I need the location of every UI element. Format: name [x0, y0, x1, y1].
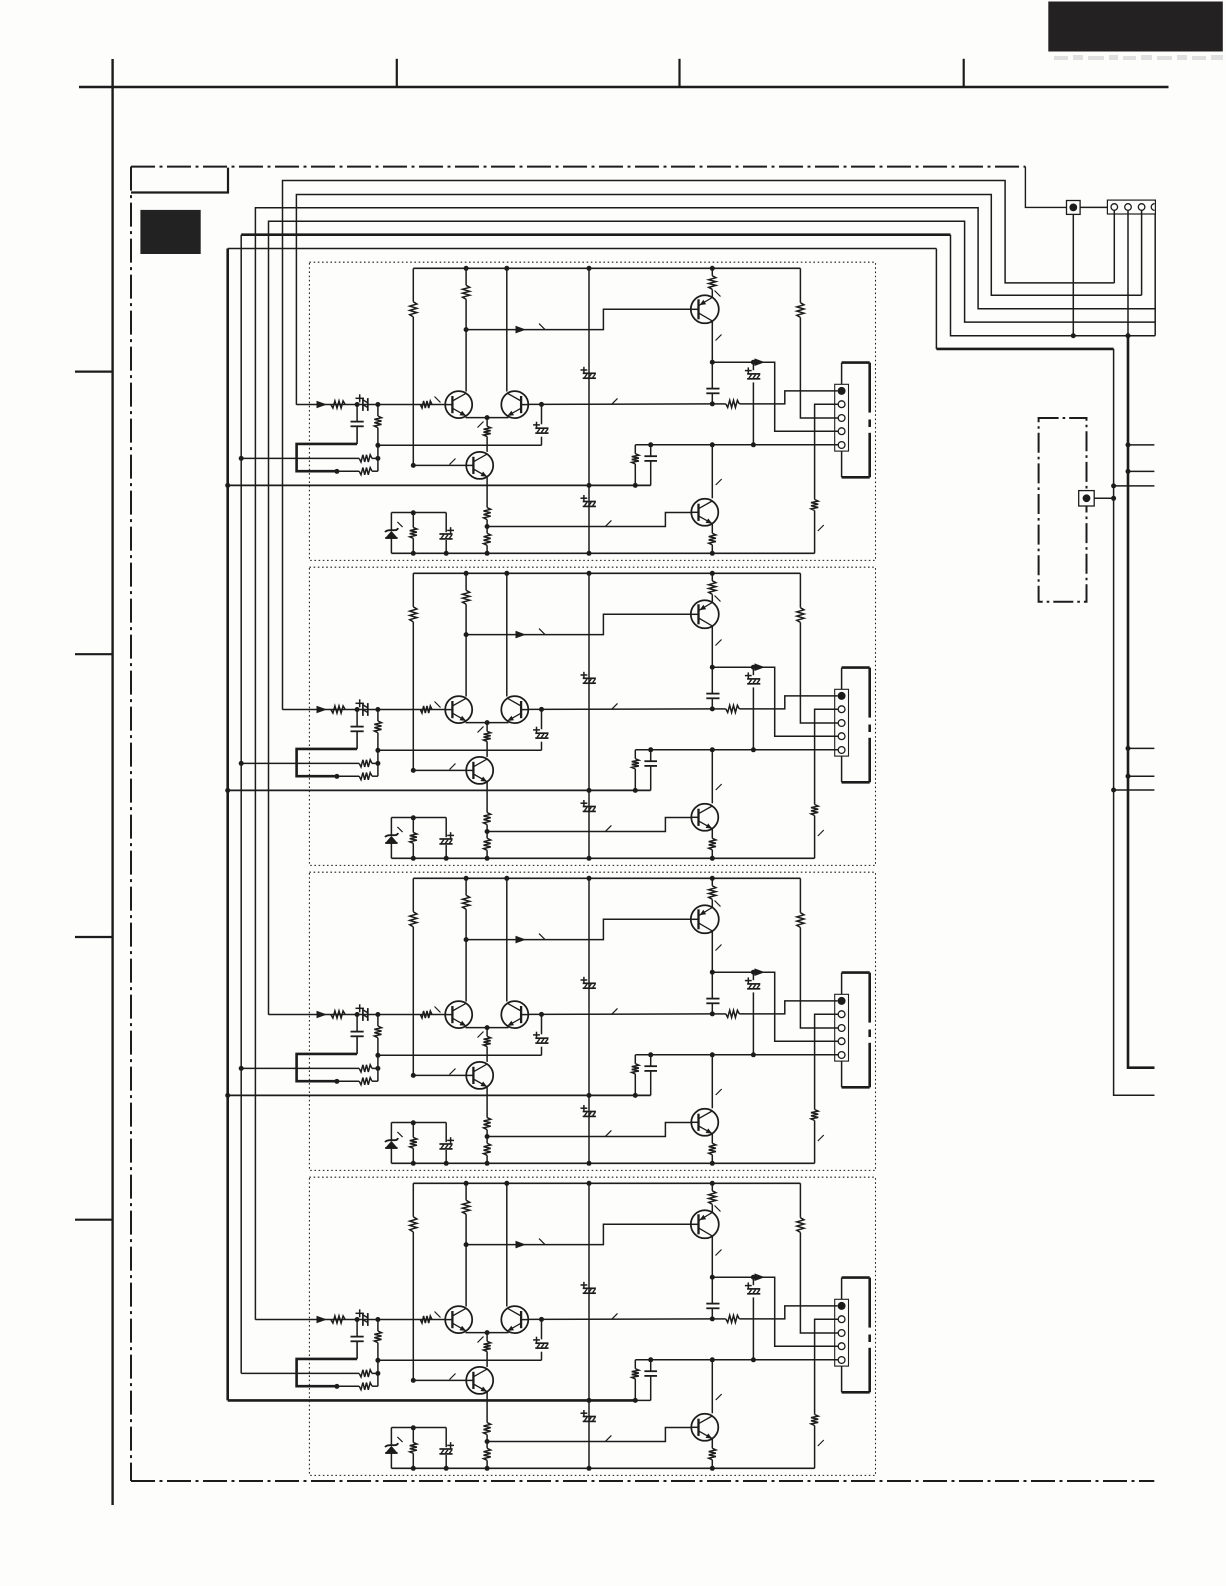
- wire output drive (to CN pin4): [712, 1277, 838, 1346]
- junction L5/CN1 pin2 drop: [1126, 333, 1131, 338]
- junction emitters: [485, 1330, 490, 1335]
- resistor R26 (row B): [337, 775, 359, 777]
- resistor R36 (row B): [337, 1080, 359, 1082]
- junction rail/Q22 collector: [504, 571, 509, 576]
- stub wire y748.4: [1128, 747, 1154, 749]
- board outline dash-dot bottom edge: [131, 1480, 1154, 1482]
- junction drive/C37: [751, 970, 756, 975]
- junction Q34 collector node: [710, 970, 715, 975]
- junction sense/C18: [648, 442, 653, 447]
- resistor R415 (Q43 emitter lower): [484, 1448, 491, 1460]
- junction input/C31: [355, 1012, 360, 1017]
- resistor R38: [799, 878, 801, 912]
- fold tick left 3: [75, 936, 113, 938]
- junction rail/Q12 collector: [504, 266, 509, 271]
- junction Q45 emitter/bottom rail: [710, 1466, 715, 1471]
- channel 4 outline (dotted): [309, 1177, 875, 1475]
- junction L6/block2: [225, 788, 230, 793]
- CN5 pin 3: [838, 1330, 845, 1337]
- junction C29/bottom rail: [444, 856, 449, 861]
- resistor R15 (row A): [241, 457, 359, 459]
- transistor Q22: [501, 696, 528, 723]
- drive wire to Q44 base: [466, 1224, 691, 1244]
- junction fbgnd/R410: [633, 1398, 638, 1403]
- junction mid rail/feedback ground line: [587, 788, 592, 793]
- junction jog/R16: [334, 469, 339, 474]
- transistor Q24: [691, 600, 719, 628]
- CN5 pin 5: [838, 1357, 845, 1364]
- CN3 pin 4: [838, 733, 845, 740]
- junction mid rail/bottom rail: [587, 1466, 592, 1471]
- wire Q33 base: [413, 1074, 466, 1076]
- resistor R47: [711, 1183, 713, 1191]
- junction mid rail/feedback ground line: [587, 1093, 592, 1098]
- input wire ch3: [269, 1014, 446, 1016]
- wire mid rail ch3: [588, 878, 590, 1163]
- junction R14/row A: [375, 456, 380, 461]
- wire Q22 collector: [506, 573, 508, 696]
- junction emitters: [485, 720, 490, 725]
- stub wire y790: [1114, 789, 1155, 791]
- capacitor C16: [711, 362, 713, 388]
- wire C23 to R25 node: [378, 749, 542, 751]
- CN3 pin 5: [838, 747, 845, 754]
- resistor R12: [465, 268, 467, 285]
- junction L6/block3: [225, 1093, 230, 1098]
- resistor R32: [465, 878, 467, 895]
- CN5 pin 2: [838, 1316, 845, 1323]
- resistor R316 (protection): [412, 1123, 414, 1138]
- junction fbgnd/R310: [633, 1093, 638, 1098]
- resistor R112 (Q15 emitter): [711, 524, 713, 534]
- capacitor C12 (input, polarized): [362, 398, 364, 411]
- connector CN5: [835, 1299, 849, 1366]
- junction Q33 base/R31: [411, 1073, 416, 1078]
- junction protection/R41: [411, 1425, 416, 1430]
- junction rail/R22: [464, 571, 469, 576]
- bus wire L3 (block4 input): [255, 208, 1155, 1320]
- wire feedback ground line ch1: [228, 484, 651, 486]
- junction L5/pad P1 drop: [1071, 333, 1076, 338]
- CN2 pin 2: [838, 401, 845, 408]
- bus wire L1 (block2 input): [283, 181, 1115, 710]
- wire Q23 base: [413, 769, 466, 771]
- resistor R17: [711, 268, 713, 276]
- junction mid rail/bottom rail: [587, 856, 592, 861]
- wire Q15 base step: [487, 513, 691, 527]
- capacitor C49 (protection): [445, 1428, 447, 1448]
- resistor R412 (Q45 emitter): [711, 1439, 713, 1449]
- resistor R11: [412, 268, 414, 302]
- junction rail/mid rail: [587, 571, 592, 576]
- transistor Q31: [445, 1001, 472, 1028]
- wire Q25 collector: [711, 750, 713, 804]
- junction rail/mid rail: [587, 266, 592, 271]
- wire dash-dot corner to pad P1: [1025, 167, 1066, 208]
- stub wire y471.4: [1128, 470, 1154, 472]
- CN2 pin 3: [838, 415, 845, 422]
- junction protection/R11: [411, 510, 416, 515]
- resistor R22a (input series): [331, 706, 345, 713]
- wire sense line (to CN pin5): [635, 1054, 838, 1056]
- junction C39/bottom rail: [444, 1161, 449, 1166]
- resistor R14: [377, 405, 379, 417]
- wire bottom rail ch4: [391, 1467, 814, 1469]
- resistor R414 (Q43 emitter upper): [486, 1392, 488, 1423]
- transistor Q14: [691, 295, 719, 323]
- shield bracket ch4: [841, 1278, 843, 1300]
- resistor R113 (to Q13 collector): [486, 418, 488, 427]
- transistor Q13: [466, 452, 493, 479]
- resistor R43 (input): [420, 1316, 432, 1323]
- resistor R211 (to CN pin2): [815, 709, 839, 804]
- junction Q23 emitter/base step: [485, 829, 490, 834]
- junction R42/drive line: [464, 1242, 469, 1247]
- capacitor C23 (at Q22 base): [541, 709, 543, 729]
- capacitor C27: [752, 667, 754, 675]
- resistor R34: [377, 1015, 379, 1027]
- junction R14/feedback: [375, 443, 380, 448]
- junction input/R14: [375, 402, 380, 407]
- resistor R18: [799, 268, 801, 302]
- bus wire L4 (block3 input): [269, 221, 1156, 1015]
- junction rail/R12: [464, 266, 469, 271]
- capacitor C25 (on mid rail): [583, 806, 596, 808]
- junction R24/row A: [375, 761, 380, 766]
- transistor Q21: [445, 696, 472, 723]
- junction R316/bottom rail: [411, 1161, 416, 1166]
- transistor Q15: [691, 499, 718, 526]
- protection network top wire ch1: [391, 512, 446, 514]
- transistor Q45: [691, 1414, 718, 1441]
- junction R34/row A: [375, 1066, 380, 1071]
- resistor R110: [634, 445, 636, 454]
- capacitor C17: [752, 362, 754, 370]
- transistor Q12: [501, 391, 528, 418]
- junction Q42 base node: [539, 1317, 544, 1322]
- fold tick top 1: [396, 59, 398, 87]
- capacitor C26: [711, 667, 713, 693]
- resistor R413 (to Q43 collector): [486, 1333, 488, 1342]
- wire emitters link: [466, 417, 509, 419]
- junction Q35 emitter/bottom rail: [710, 1161, 715, 1166]
- junction fbgnd/R110: [633, 483, 638, 488]
- junction rail/R27: [710, 571, 715, 576]
- wire mid rail ch2: [588, 573, 590, 858]
- resistor R41: [412, 1183, 414, 1217]
- wire sense line (to CN pin5): [635, 444, 838, 446]
- resistor R416 (protection): [412, 1428, 414, 1443]
- junction input/R44: [375, 1317, 380, 1322]
- fold tick left 1: [75, 371, 113, 373]
- junction rail/R37: [710, 876, 715, 881]
- CN3 pin 1: [838, 692, 846, 700]
- resistor R24: [377, 710, 379, 722]
- zener diode D11: [390, 513, 392, 530]
- drive wire to Q34 base: [466, 919, 691, 939]
- junction input/C21: [355, 707, 360, 712]
- junction R22/drive line: [464, 632, 469, 637]
- wire mid rail ch1: [588, 268, 590, 553]
- transistor Q23: [466, 757, 493, 784]
- junction rail/R47: [710, 1181, 715, 1186]
- board outline notch box: [131, 168, 228, 193]
- junction mid rail/bottom rail: [587, 1161, 592, 1166]
- junction output/feedback: [710, 401, 715, 406]
- CN4 pin 2: [838, 1011, 845, 1018]
- resistor R25 (row A): [241, 762, 359, 764]
- wire emitters link: [466, 722, 509, 724]
- resistor R114 (Q13 emitter upper): [486, 477, 488, 508]
- capacitor C48: [650, 1360, 652, 1371]
- wire Q14 collector: [711, 321, 713, 362]
- wire Q24 collector: [711, 626, 713, 667]
- capacitor C11: [356, 405, 358, 422]
- wire mid rail ch4: [588, 1183, 590, 1468]
- capacitor C21: [356, 710, 358, 727]
- CN5 pin 1: [838, 1302, 846, 1310]
- drive wire to Q24 base: [466, 614, 691, 634]
- protection network top wire ch2: [391, 817, 446, 819]
- wire Q42 collector: [506, 1183, 508, 1306]
- redacted sheet label (black): [140, 210, 200, 254]
- wire bottom rail ch3: [391, 1162, 814, 1164]
- zener diode D31: [390, 1123, 392, 1140]
- ground return jog (thick) ch4: [297, 1359, 358, 1386]
- wire C43 to R45 node: [378, 1359, 542, 1361]
- wire Q34 collector: [711, 931, 713, 972]
- transistor Q11: [445, 391, 472, 418]
- page border left rule: [111, 59, 113, 1505]
- channel 1 outline (dotted): [309, 262, 875, 560]
- wire bottom rail ch1: [391, 552, 814, 554]
- junction emitters: [485, 1025, 490, 1030]
- junction input/R34: [375, 1012, 380, 1017]
- bus wire L2 (block1 input): [296, 195, 1141, 405]
- resistor R310: [634, 1055, 636, 1064]
- CN2 pin 1: [838, 387, 846, 395]
- capacitor C45 (on mid rail): [583, 1416, 596, 1418]
- transistor Q34: [691, 905, 719, 933]
- junction R32/drive line: [464, 937, 469, 942]
- CN4 pin 4: [838, 1038, 845, 1045]
- resistor R210: [634, 750, 636, 759]
- capacitor C44 (on mid rail): [583, 1287, 596, 1289]
- capacitor C46: [711, 1277, 713, 1303]
- resistor R215 (Q23 emitter lower): [484, 838, 491, 850]
- junction rail/Q32 collector: [504, 876, 509, 881]
- wire feedback ground line ch4: [228, 1399, 636, 1402]
- wire sense line (to CN pin5): [635, 1359, 838, 1361]
- wire feedback ground line ch2: [228, 789, 651, 791]
- resistor R39 (output): [712, 1013, 726, 1015]
- junction sense/Q15 collector: [710, 442, 715, 447]
- junction Q15 emitter/bottom rail: [710, 551, 715, 556]
- capacitor C41: [356, 1320, 358, 1337]
- junction input/R24: [375, 707, 380, 712]
- shield bracket ch2: [841, 668, 843, 690]
- resistor R12a (input series): [331, 401, 345, 408]
- junction mid rail/feedback ground line: [587, 1398, 592, 1403]
- wire pad P2 to right rail A: [1094, 497, 1113, 499]
- wire feedback to Q12 base: [528, 403, 712, 406]
- junction L5/block3: [239, 1066, 244, 1071]
- test pad P2: [1079, 491, 1095, 506]
- junction sense/C17: [751, 442, 756, 447]
- resistor R29 (output): [712, 708, 726, 710]
- wire Q13 base: [413, 464, 466, 466]
- capacitor C39 (protection): [445, 1123, 447, 1143]
- CN4 pin 1: [838, 997, 846, 1005]
- junction mid rail/feedback ground line: [587, 483, 592, 488]
- resistor R48: [799, 1183, 801, 1217]
- stub wire y444.9: [1128, 444, 1154, 446]
- fold tick top 2: [678, 59, 680, 87]
- resistor R45 (row A): [241, 1372, 359, 1374]
- resistor R213 (to Q23 collector): [486, 723, 488, 732]
- transistor Q35: [691, 1109, 718, 1136]
- junction Q22 base node: [539, 707, 544, 712]
- junction Q33 emitter/base step: [485, 1134, 490, 1139]
- junction output/feedback: [710, 706, 715, 711]
- resistor R31: [412, 878, 414, 912]
- board outline dash-dot top edge: [131, 166, 1025, 168]
- wire Q35 base step: [487, 1123, 691, 1137]
- junction rail/R42: [464, 1181, 469, 1186]
- right rail wire B thick (x1128): [1128, 336, 1155, 1068]
- capacitor C24 (on mid rail): [583, 677, 596, 679]
- fold tick top 3: [963, 59, 965, 87]
- capacitor C15 (on mid rail): [583, 501, 596, 503]
- zener diode D41: [390, 1428, 392, 1445]
- junction sense/Q45 collector: [710, 1357, 715, 1362]
- input wire ch4: [255, 1319, 445, 1321]
- junction Q25 emitter/bottom rail: [710, 856, 715, 861]
- resistor R16 (row B): [337, 470, 359, 472]
- right rail wire A (x1113.6): [1114, 349, 1155, 1095]
- channel 3 outline (dotted): [309, 872, 875, 1170]
- wire Q45 base step: [487, 1428, 691, 1442]
- capacitor C43 (at Q42 base): [541, 1319, 543, 1339]
- junction Q13 base/R11: [411, 463, 416, 468]
- resistor R28: [799, 573, 801, 607]
- wire Q44 collector: [711, 1236, 713, 1277]
- wire feedback to Q42 base: [528, 1318, 712, 1321]
- protection network top wire ch4: [391, 1427, 446, 1429]
- junction sense/C37: [751, 1052, 756, 1057]
- capacitor C42 (input, polarized): [362, 1313, 364, 1326]
- capacitor C38: [650, 1055, 652, 1066]
- junction drive/C27: [751, 665, 756, 670]
- wire output drive (to CN pin4): [712, 362, 838, 431]
- wire Q45 collector: [711, 1360, 713, 1414]
- wire pad P1 to connector CN1: [1080, 206, 1107, 208]
- resistor R212 (Q25 emitter): [711, 829, 713, 839]
- junction R416/bottom rail: [411, 1466, 416, 1471]
- junction sense/C27: [751, 747, 756, 752]
- junction R44/feedback: [375, 1358, 380, 1363]
- wire top rail ch2: [413, 572, 800, 574]
- resistor R313 (to Q33 collector): [486, 1028, 488, 1037]
- stub wire y485.9: [1114, 485, 1155, 487]
- wire emitters link: [466, 1027, 509, 1029]
- junction R44/row A: [375, 1371, 380, 1376]
- module outline dash-dot box (right): [1039, 418, 1087, 602]
- connector CN1: [1107, 200, 1155, 214]
- wire bottom rail ch2: [391, 857, 814, 859]
- resistor R315 (Q33 emitter lower): [484, 1143, 491, 1155]
- wire sense line (to CN pin5): [635, 749, 838, 751]
- transistor Q42: [501, 1306, 528, 1333]
- junction output/feedback: [710, 1011, 715, 1016]
- connector CN4: [835, 994, 849, 1061]
- connector CN2: [835, 384, 849, 451]
- junction emitters: [485, 415, 490, 420]
- junction R12/drive line: [464, 327, 469, 332]
- resistor R22: [465, 573, 467, 590]
- junction L5/block1: [239, 456, 244, 461]
- page border top rule: [79, 86, 1169, 88]
- capacitor C14 (on mid rail): [583, 372, 596, 374]
- transistor Q32: [501, 1001, 528, 1028]
- junction sense/C38: [648, 1052, 653, 1057]
- CN2 pin 5: [838, 442, 845, 449]
- transistor Q25: [691, 804, 718, 831]
- bus wire L6 (ground rail, thick): [226, 249, 229, 1401]
- stub wire y776.2: [1128, 775, 1154, 777]
- junction input/C11: [355, 402, 360, 407]
- resistor R410: [634, 1360, 636, 1369]
- junction input/C41: [355, 1317, 360, 1322]
- junction jog/R46: [334, 1384, 339, 1389]
- wire Q43 base: [413, 1379, 466, 1381]
- resistor R214 (Q23 emitter upper): [486, 782, 488, 813]
- wire C33 to R35 node: [378, 1054, 542, 1056]
- junction R34/feedback: [375, 1053, 380, 1058]
- bus wire L5 (bias rail): [240, 235, 242, 1374]
- junction drive/C17: [751, 360, 756, 365]
- transistor Q41: [445, 1306, 472, 1333]
- capacitor C32 (input, polarized): [362, 1008, 364, 1021]
- junction R216/bottom rail: [411, 856, 416, 861]
- junction rail/mid rail: [587, 876, 592, 881]
- resistor R115 (Q13 emitter lower): [484, 533, 491, 545]
- resistor R312 (Q35 emitter): [711, 1134, 713, 1144]
- resistor R23 (input): [420, 706, 432, 713]
- junction fbgnd/R210: [633, 788, 638, 793]
- resistor R49 (output): [712, 1318, 726, 1320]
- junction Q43 emitter/base step: [485, 1439, 490, 1444]
- wire Q12 collector: [506, 268, 508, 391]
- transistor Q33: [466, 1062, 493, 1089]
- wire CN1 pin2 drop: [1127, 210, 1129, 335]
- wire C13 to R15 node: [378, 444, 542, 446]
- CN3 pin 2: [838, 706, 845, 713]
- junction L6/block1: [225, 483, 230, 488]
- junction R215/bottom rail: [485, 856, 490, 861]
- junction mid rail/bottom rail: [587, 551, 592, 556]
- junction output/feedback: [710, 1316, 715, 1321]
- junction sense/Q35 collector: [710, 1052, 715, 1057]
- input wire ch1: [296, 404, 445, 406]
- capacitor C19 (protection): [445, 513, 447, 533]
- resistor R111 (to CN pin2): [815, 404, 839, 499]
- junction jog/R36: [334, 1079, 339, 1084]
- shield bracket ch3: [841, 973, 843, 995]
- junction protection/R21: [411, 815, 416, 820]
- resistor R27: [711, 573, 713, 581]
- capacitor C13 (at Q12 base): [541, 404, 543, 424]
